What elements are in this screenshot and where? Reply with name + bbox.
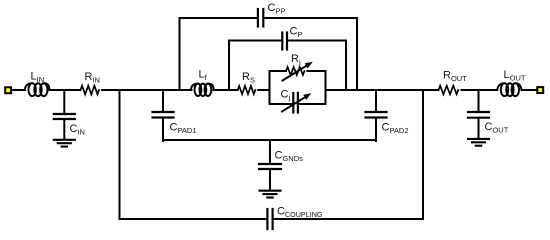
svg-text:CPAD1: CPAD1 [170, 122, 197, 136]
wire LIN to RIN (node of CIN) [50, 89, 81, 91]
capacitor CPP [258, 9, 263, 27]
svg-text:CGNDs: CGNDs [275, 150, 304, 164]
wire CPP rail right [264, 17, 357, 19]
ground (below COUT) [468, 139, 489, 146]
wire box to ROUT (nodes: CP leg, CPP leg, CPAD2, coupling leg) [326, 89, 439, 91]
capacitor CPAD2 [366, 90, 387, 141]
wire CP rail right [288, 40, 346, 42]
inductor Lf [191, 84, 214, 96]
wire port P1 to LIN [12, 89, 25, 91]
capacitor CIN [54, 90, 75, 139]
svg-text:LIN: LIN [31, 71, 45, 85]
port P1 (input, yellow pad) [5, 87, 11, 93]
svg-text:Rj: Rj [291, 53, 301, 67]
arrow of Cj [282, 93, 311, 111]
svg-text:RS: RS [242, 71, 255, 85]
svg-text:Lf: Lf [199, 69, 208, 83]
inductor LIN [25, 83, 50, 96]
wire CP left leg [228, 41, 230, 91]
wire CP right leg [345, 41, 347, 91]
resistor RS [238, 86, 256, 94]
capacitor CP [282, 33, 287, 50]
wire RS to Rj/Cj box [258, 89, 269, 91]
svg-text:CPP: CPP [268, 2, 286, 16]
wire CCOUPLING rail left [120, 218, 267, 220]
svg-text:RIN: RIN [85, 71, 100, 85]
ground (below CGNDs) [260, 191, 281, 198]
wire box bottom edge right [299, 103, 326, 105]
wire CP rail left [229, 40, 281, 42]
inductor LOUT [497, 83, 521, 96]
svg-text:Cj: Cj [281, 89, 291, 103]
svg-text:ROUT: ROUT [443, 70, 467, 84]
wire box bottom edge left [270, 103, 293, 105]
wire CPP left leg [179, 18, 181, 90]
port P2 (output, yellow pad) [537, 87, 543, 93]
svg-text:CPAD2: CPAD2 [382, 122, 409, 136]
capacitor COUT [468, 90, 489, 138]
wire box top edge right [308, 70, 326, 72]
capacitor CCOUPLING [267, 209, 272, 229]
capacitor CPAD1 [153, 90, 174, 141]
svg-text:COUT: COUT [485, 121, 509, 135]
wire right coupling leg (down to CCOUPLING rail) [422, 90, 424, 219]
wire left coupling leg (down to CCOUPLING rail) [119, 90, 121, 219]
wire CCOUPLING rail right [274, 218, 423, 220]
wire ROUT to LOUT (node of COUT) [462, 89, 498, 91]
capacitor CGNDs [259, 140, 281, 190]
wire box left side [269, 71, 271, 104]
resistor RIN [81, 86, 100, 95]
resistor Rj (variable) [286, 67, 304, 75]
wire box top edge left [270, 70, 287, 72]
wire box right side [325, 71, 327, 104]
resistor ROUT [439, 86, 459, 95]
wire CPP rail left [180, 17, 257, 19]
wire pad rail (CPAD1 to CPAD2) [163, 139, 376, 141]
arrow of Rj [283, 62, 313, 81]
svg-text:LOUT: LOUT [504, 69, 526, 83]
capacitor Cj (variable) [293, 93, 298, 113]
svg-text:CCOUPLING: CCOUPLING [277, 206, 323, 219]
svg-text:CP: CP [290, 26, 303, 40]
ground (below CIN) [54, 140, 75, 147]
wire RIN to Lf (nodes: coupling leg, CPAD1, CPP leg) [102, 89, 191, 91]
wire CPP right leg [356, 18, 358, 90]
wire LOUT to port P2 [522, 89, 537, 91]
svg-text:CIN: CIN [70, 123, 85, 137]
wire Lf to RS (node of CP left leg) [214, 89, 238, 91]
